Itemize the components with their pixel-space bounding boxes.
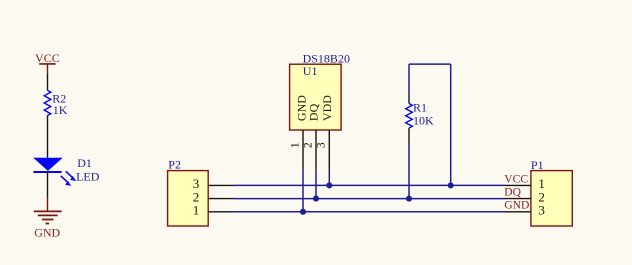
junction R1 left leg / DQ net [406, 196, 412, 202]
wire R1 loop top [409, 63, 451, 65]
LED D1 [33, 156, 100, 186]
junction R1 right leg / VCC net [448, 182, 454, 188]
svg-text:3: 3 [315, 142, 327, 148]
svg-text:1: 1 [289, 142, 301, 148]
wire R1 loop right leg to VCC bus [450, 64, 452, 185]
pin 1 of P1 [505, 184, 531, 186]
junction U1 GND pin / GND net [300, 209, 306, 215]
ground [34, 198, 62, 240]
wire VCC net [234, 184, 505, 186]
connector P1 [531, 158, 572, 226]
pin 3 of P1 [505, 211, 531, 213]
svg-text:LED: LED [76, 169, 100, 183]
svg-text:3: 3 [538, 203, 545, 218]
pin 2 of P1 [505, 198, 531, 200]
pin 2 of U1 (DQ) [302, 130, 316, 170]
svg-text:VDD: VDD [320, 95, 334, 121]
wire D1 to GND (pin) [47, 172, 49, 198]
pin 3 of P2 [208, 184, 234, 186]
svg-text:2: 2 [302, 142, 314, 148]
svg-text:DQ: DQ [306, 103, 320, 121]
svg-text:GND: GND [504, 199, 529, 212]
pin 1 of U1 (GND) [289, 130, 303, 170]
pin 2 of P2 [208, 198, 234, 200]
resistor R1 [406, 94, 434, 145]
svg-text:10K: 10K [413, 113, 434, 127]
svg-text:U1: U1 [303, 64, 318, 78]
svg-text:1: 1 [193, 203, 200, 218]
svg-text:1K: 1K [53, 103, 68, 117]
junction U1 VDD pin / VCC net [326, 182, 332, 188]
power symbol VCC [35, 51, 60, 74]
svg-text:VCC: VCC [504, 172, 528, 185]
wire R1 bottom leg to DQ bus [408, 145, 410, 199]
pin 3 of U1 (VDD) [315, 130, 329, 170]
wire R2 to D1 (pin) [47, 115, 49, 157]
wire U1 pin3 to VCC bus [328, 170, 330, 185]
connector P2 [168, 158, 209, 226]
wire R1 top leg [408, 64, 410, 93]
wire U1 pin1 to GND bus [302, 170, 304, 211]
pin 1 of P2 [208, 211, 234, 213]
svg-text:VCC: VCC [35, 51, 60, 65]
svg-text:DQ: DQ [504, 186, 521, 199]
svg-text:P2: P2 [168, 158, 181, 172]
resistor R2 [44, 90, 68, 117]
svg-text:GND: GND [34, 226, 60, 240]
wire VCC to R2 (pin) [47, 74, 49, 91]
svg-text:D1: D1 [77, 156, 92, 170]
junction U1 DQ pin / DQ net [313, 196, 319, 202]
IC U1 DS18B20 body [290, 51, 350, 130]
wire DQ net [234, 198, 505, 200]
wire U1 pin2 to DQ bus [315, 170, 317, 198]
wire GND net [234, 211, 505, 213]
svg-text:P1: P1 [531, 158, 544, 172]
